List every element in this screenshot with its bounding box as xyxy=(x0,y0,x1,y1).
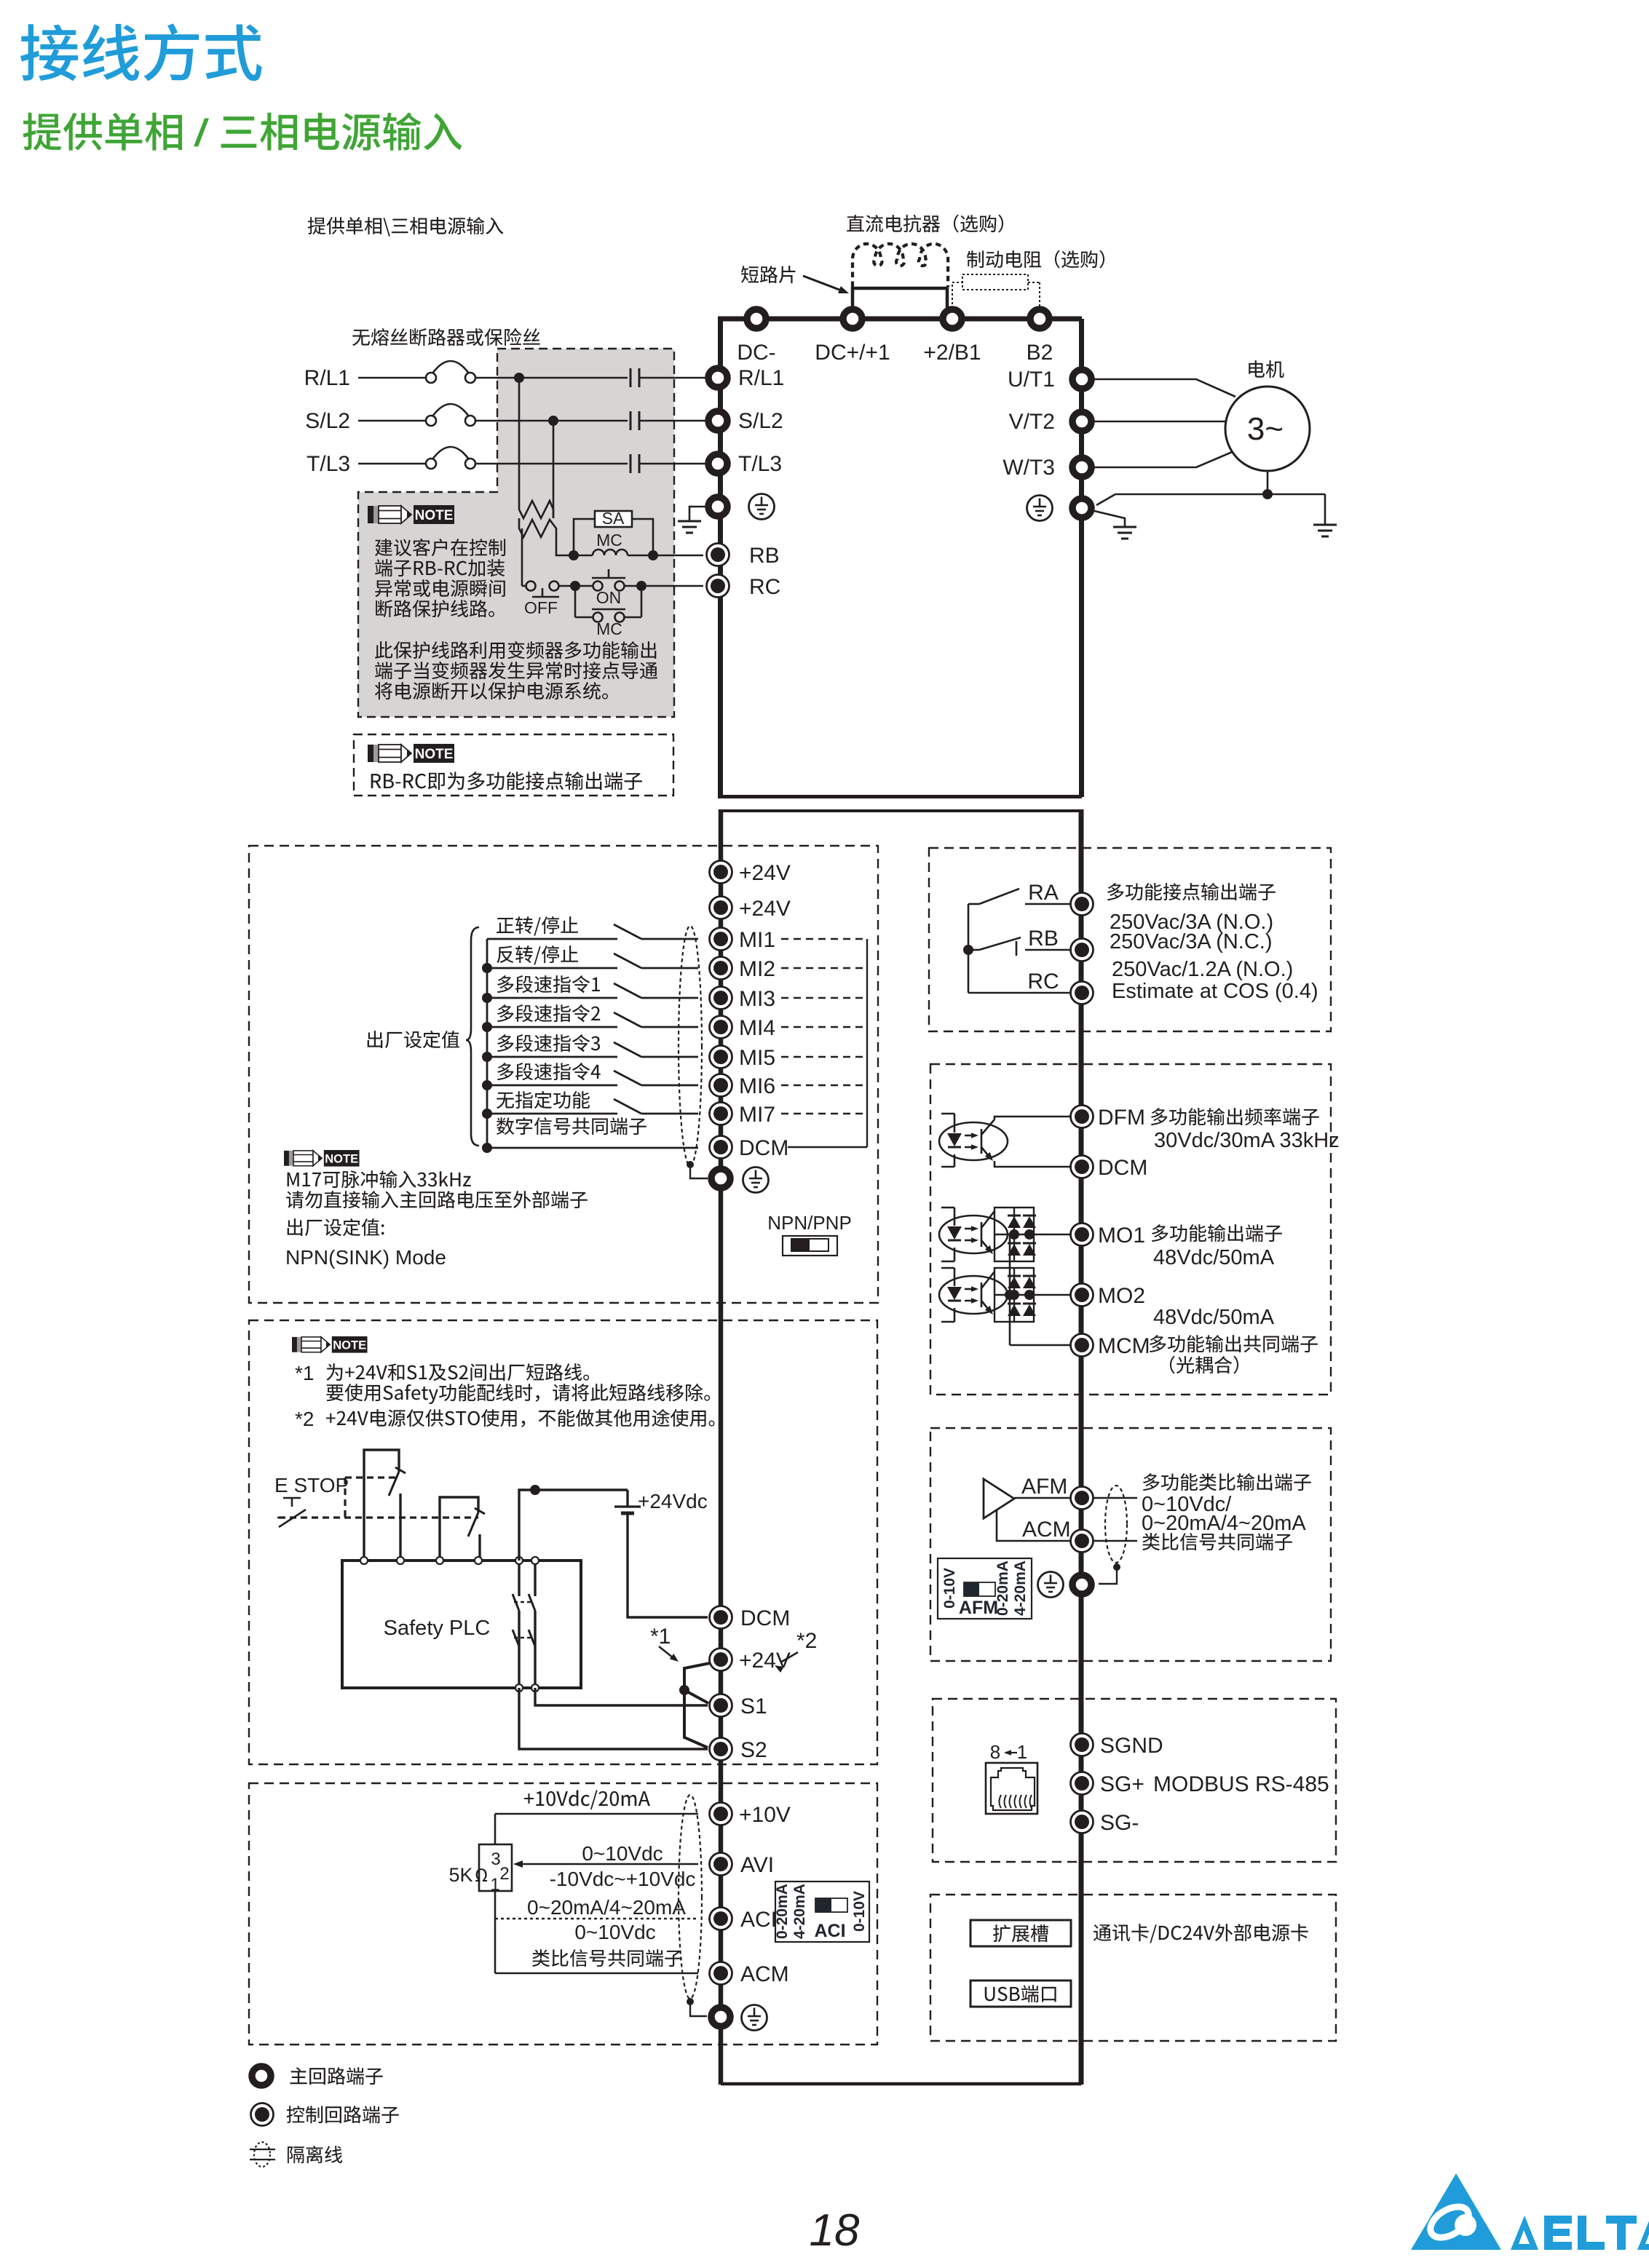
svg-text:NOTE: NOTE xyxy=(415,508,454,523)
svg-text:0-10V: 0-10V xyxy=(851,1891,868,1932)
ground terminal (digital input shield) xyxy=(711,1169,730,1188)
svg-text:*1: *1 xyxy=(295,1362,314,1384)
inverter main power box xyxy=(718,317,1082,322)
svg-text:+24V: +24V xyxy=(739,897,791,921)
svg-text:ACM: ACM xyxy=(1022,1518,1071,1542)
MCM text xyxy=(1150,1335,1318,1352)
svg-text:SG-: SG- xyxy=(1100,1811,1139,1835)
junction bus-MI2 xyxy=(482,963,492,973)
junction R/L1 branch xyxy=(514,373,524,383)
svg-text:MI6: MI6 xyxy=(739,1074,775,1098)
wire MO2 to terminal xyxy=(1034,1294,1070,1296)
svg-text:0-10V: 0-10V xyxy=(941,1568,958,1609)
svg-text:V/T2: V/T2 xyxy=(1009,410,1055,434)
terminal ACM (out) xyxy=(1071,1530,1094,1553)
junction relay RB xyxy=(963,945,973,955)
svg-text:AVI: AVI xyxy=(740,1853,774,1877)
dashed box analog output xyxy=(930,1428,1331,1661)
wire DCM common (数字信号共同端子) xyxy=(497,1117,646,1135)
junction ON-MC xyxy=(636,581,646,591)
svg-text:+24V: +24V xyxy=(739,1649,791,1673)
svg-text:DFM: DFM xyxy=(1098,1106,1145,1130)
svg-text:48Vdc/50mA: 48Vdc/50mA xyxy=(1153,1306,1275,1329)
junction +24Vdc xyxy=(530,1485,540,1495)
ground terminal (output side) xyxy=(1072,499,1091,518)
svg-text:DCM: DCM xyxy=(740,1606,790,1630)
svg-text:DCM: DCM xyxy=(1098,1156,1147,1180)
PLC internal STO wires xyxy=(518,1564,520,1596)
factory jumper +24V-S1-S2 xyxy=(684,1663,710,1690)
svg-text:MO2: MO2 xyxy=(1098,1284,1145,1308)
note box RB-RC即为多功能接点输出端子 xyxy=(354,734,673,796)
ground terminal (analog shield) xyxy=(711,2007,730,2026)
svg-text:T/L3: T/L3 xyxy=(307,452,350,476)
svg-text:B2: B2 xyxy=(1027,341,1053,365)
svg-text:R/L1: R/L1 xyxy=(304,366,350,390)
switch + wire MI4 (多段速指令2) xyxy=(497,1004,600,1022)
dashed link MI6 to NPN bus xyxy=(781,1085,867,1086)
svg-text:ON: ON xyxy=(596,588,622,607)
svg-text:RC: RC xyxy=(749,575,780,599)
surge absorber SA xyxy=(595,511,632,527)
svg-text:SG+: SG+ xyxy=(1100,1772,1144,1796)
svg-text:MC: MC xyxy=(596,619,622,638)
optocoupler DFM xyxy=(941,1113,954,1115)
terminal MCM xyxy=(1071,1334,1094,1357)
note text 建议客户在控制端子RB-RC加装... xyxy=(375,539,505,556)
svg-text:S2: S2 xyxy=(740,1738,767,1762)
wire PLC to S1 xyxy=(535,1688,708,1705)
PLC top port x=657 xyxy=(475,1557,482,1564)
svg-text:0~10Vdc: 0~10Vdc xyxy=(574,1921,655,1943)
svg-text:MI1: MI1 xyxy=(739,928,775,952)
svg-text:AFM: AFM xyxy=(1021,1475,1067,1499)
svg-text:5K: 5K xyxy=(448,1864,472,1886)
terminal V/T2 xyxy=(1072,412,1091,431)
wire ON junction to RC xyxy=(641,585,703,587)
terminal S2 xyxy=(710,1738,732,1761)
svg-text:MC: MC xyxy=(596,531,622,550)
page title 接线方式 xyxy=(20,23,262,81)
terminal B2 xyxy=(1030,309,1049,328)
analog output text xyxy=(1143,1473,1311,1491)
terminal DCM (STO) xyxy=(710,1606,732,1629)
dashed box digital input section xyxy=(249,846,878,1303)
svg-text:RA: RA xyxy=(1028,881,1059,905)
dashed link MI5 to NPN bus xyxy=(781,1056,867,1058)
motor ground wire xyxy=(1267,471,1269,494)
ACI switch box xyxy=(775,1882,869,1942)
wire PLC to S2 xyxy=(519,1688,708,1749)
junction bus-MI5 xyxy=(482,1052,492,1062)
ACM wire xyxy=(532,1949,682,1967)
junction bus-MI4 xyxy=(482,1022,492,1032)
svg-text:2: 2 xyxy=(499,1864,509,1884)
switch + wire MI1 (正转/停止) xyxy=(497,916,578,936)
terminal +2/B1 xyxy=(943,309,962,328)
RJ45 pins xyxy=(1000,1795,1002,1808)
junction bus-MI6 xyxy=(482,1080,492,1090)
terminal DC+/+1 xyxy=(843,309,862,328)
dashed link MI7 to NPN bus xyxy=(781,1113,867,1114)
dashed link MI4 to NPN bus xyxy=(781,1026,867,1028)
shield ellipse (analog out) xyxy=(1094,1497,1137,1499)
switch + wire MI5 (多段速指令3) xyxy=(497,1034,600,1052)
junction motor ground xyxy=(1262,489,1273,499)
note M17 xyxy=(284,1150,360,1167)
junction MC-right xyxy=(648,550,658,560)
shield ellipse (analog inputs) xyxy=(679,1795,702,1999)
svg-text:0-20mA: 0-20mA xyxy=(994,1561,1011,1616)
svg-text:W/T3: W/T3 xyxy=(1003,456,1055,480)
svg-text:MCM: MCM xyxy=(1098,1334,1150,1358)
junction MC-left xyxy=(569,550,579,560)
expansion slot 扩展槽 xyxy=(970,1920,1071,1946)
optocoupler MO1 xyxy=(941,1207,954,1209)
NPN/PNP select bus xyxy=(866,939,868,1147)
svg-text:0~10Vdc: 0~10Vdc xyxy=(582,1842,663,1865)
terminal +24V (STO) xyxy=(710,1649,732,1671)
terminal DC- xyxy=(747,309,766,328)
shield ellipse (digital inputs) xyxy=(679,926,702,1166)
svg-text:*2: *2 xyxy=(295,1408,314,1430)
svg-text:NOTE: NOTE xyxy=(333,1338,366,1352)
terminal +24V (1) xyxy=(710,861,732,884)
ground wire input side xyxy=(689,507,705,521)
junction bus-MI7 xyxy=(482,1109,492,1119)
svg-text:-10Vdc~+10Vdc: -10Vdc~+10Vdc xyxy=(550,1868,696,1890)
svg-text:0-20mA: 0-20mA xyxy=(774,1884,791,1939)
potentiometer 5K xyxy=(494,1814,497,1844)
svg-text:SGND: SGND xyxy=(1100,1734,1163,1758)
dashed box analog input section xyxy=(249,1783,877,2045)
wire MO1 to terminal xyxy=(1034,1234,1070,1236)
dashed box RS-485 xyxy=(933,1699,1336,1862)
Delta logo xyxy=(1411,2173,1501,2250)
svg-text:NOTE: NOTE xyxy=(415,747,454,762)
ground terminal (input side) xyxy=(708,497,727,516)
+10V supply wire xyxy=(524,1791,650,1809)
diode bridge MO2 xyxy=(994,1268,1034,1322)
contact MC (parallel) xyxy=(574,586,577,617)
svg-text:RB: RB xyxy=(1028,927,1059,951)
PLC top port x=735 xyxy=(531,1557,539,1564)
dashed box relay output xyxy=(929,848,1331,1031)
DFM text xyxy=(1151,1108,1319,1125)
junction OFF-ON xyxy=(570,581,580,591)
PLC top port x=500 xyxy=(360,1557,368,1564)
PLC top port x=604 xyxy=(436,1557,443,1564)
ground symbol (motor) xyxy=(1313,524,1337,526)
terminal SGND xyxy=(1071,1734,1094,1756)
terminal MO1 xyxy=(1071,1224,1094,1246)
wire MC junction to RB xyxy=(653,555,703,557)
label 无熔丝断路器或保险丝 xyxy=(352,328,540,346)
braking resistor (制动电阻 选购) dotted xyxy=(962,274,1028,290)
svg-text:0~20mA/4~20mA: 0~20mA/4~20mA xyxy=(1142,1512,1306,1535)
svg-text:+24V: +24V xyxy=(739,861,791,885)
svg-text:NPN(SINK) Mode: NPN(SINK) Mode xyxy=(285,1246,446,1269)
ground terminal (analog out shield) xyxy=(1072,1575,1091,1594)
relay common vertical xyxy=(968,904,970,993)
svg-text:MI2: MI2 xyxy=(739,957,775,981)
svg-text:MO1: MO1 xyxy=(1098,1224,1145,1248)
svg-text:+24Vdc: +24Vdc xyxy=(638,1490,708,1512)
junction jumper xyxy=(679,1685,689,1695)
svg-text:30Vdc/30mA 33kHz: 30Vdc/30mA 33kHz xyxy=(1154,1129,1340,1152)
NOTE icon STO xyxy=(292,1336,368,1353)
switch + wire MI3 (多段速指令1) xyxy=(497,975,600,993)
MCM common wire xyxy=(1009,1234,1011,1345)
legend main circuit terminal xyxy=(252,2066,271,2085)
pushbutton OFF (NC) xyxy=(522,585,526,587)
switch + wire MI2 (反转/停止) xyxy=(497,945,578,965)
diagram caption 提供单相\三相电源输入 xyxy=(308,217,504,237)
PLC bottom port x=713 xyxy=(515,1684,523,1692)
dashed link MI3 to NPN bus xyxy=(781,997,867,999)
short-circuit jumper 短路片 xyxy=(853,287,947,290)
DC reactor L1 (直流电抗器 选购) dashed coil xyxy=(853,244,948,287)
terminal S1 xyxy=(710,1694,732,1717)
safety switch 2 xyxy=(440,1497,478,1561)
optocoupler MO2 xyxy=(941,1267,954,1269)
svg-text:S1: S1 xyxy=(740,1694,767,1718)
mechanical link dashed xyxy=(279,1516,478,1518)
legend control circuit terminal xyxy=(251,2104,274,2126)
safety switch 1 xyxy=(364,1450,399,1561)
dashed box multifunction outputs xyxy=(930,1064,1331,1395)
svg-text:S/L2: S/L2 xyxy=(305,409,350,433)
出厂设定值: NPN(SINK) Mode xyxy=(288,1218,384,1236)
terminal U/T1 xyxy=(1072,370,1091,389)
svg-text:Safety PLC: Safety PLC xyxy=(384,1617,491,1640)
terminal +24V (2) xyxy=(710,897,732,919)
terminal AFM xyxy=(1071,1487,1094,1510)
svg-text:MI3: MI3 xyxy=(739,987,775,1011)
svg-text:4-20mA: 4-20mA xyxy=(791,1884,808,1939)
relay ratings text xyxy=(1107,883,1276,900)
svg-text:ACM: ACM xyxy=(740,1962,789,1986)
svg-text:R/L1: R/L1 xyxy=(738,366,784,390)
ground wire output side xyxy=(1094,511,1125,527)
amplifier AFM xyxy=(984,1479,1014,1518)
svg-text:4-20mA: 4-20mA xyxy=(1012,1561,1029,1616)
legend shielded wire xyxy=(250,2149,275,2150)
svg-text:OFF: OFF xyxy=(524,598,558,617)
svg-text:ACI: ACI xyxy=(814,1921,845,1941)
svg-text:SA: SA xyxy=(602,509,625,528)
wire DCM to NPN bus xyxy=(788,1146,867,1148)
svg-text:Estimate at COS (0.4): Estimate at COS (0.4) xyxy=(1112,980,1318,1003)
varistor/resistor chain from R and S phases xyxy=(518,378,521,509)
svg-text:0~20mA/4~20mA: 0~20mA/4~20mA xyxy=(527,1896,686,1919)
svg-text:NPN/PNP: NPN/PNP xyxy=(767,1212,852,1234)
dashed link MI1 to NPN bus xyxy=(781,938,867,940)
svg-text:T/L3: T/L3 xyxy=(738,452,782,476)
svg-text:18: 18 xyxy=(810,2205,860,2256)
svg-text:MI4: MI4 xyxy=(739,1016,775,1040)
svg-text:S/L2: S/L2 xyxy=(738,409,783,433)
MO1 text xyxy=(1152,1224,1282,1242)
AFM switch box xyxy=(938,1558,1032,1619)
svg-text:U/T1: U/T1 xyxy=(1008,368,1055,392)
junction S/L2 branch xyxy=(548,416,558,426)
RJ45 jack xyxy=(986,1763,1037,1814)
terminal SG+ xyxy=(1071,1772,1094,1795)
NOTE icon (gray box) xyxy=(368,505,454,524)
junction bus-MI3 xyxy=(482,993,492,1003)
svg-text:DC+/+1: DC+/+1 xyxy=(815,341,890,365)
svg-text:/: / xyxy=(194,112,210,154)
svg-text:ACI: ACI xyxy=(740,1908,777,1932)
svg-text:NOTE: NOTE xyxy=(325,1151,358,1165)
terminal MO2 xyxy=(1071,1284,1094,1307)
svg-text:RB: RB xyxy=(749,544,780,568)
PLC bottom port x=735 xyxy=(531,1684,539,1692)
gray note area (protection circuit) xyxy=(358,349,674,717)
svg-text:48Vdc/50mA: 48Vdc/50mA xyxy=(1153,1246,1275,1269)
Safety PLC box xyxy=(342,1561,581,1688)
pushbutton ON (NO) xyxy=(575,585,593,587)
svg-text:MODBUS RS-485: MODBUS RS-485 xyxy=(1153,1772,1329,1796)
svg-text:DC-: DC- xyxy=(737,341,775,365)
svg-text:E STOP: E STOP xyxy=(274,1474,349,1496)
motor wires U/V/W xyxy=(1094,379,1235,397)
terminal DCM (out) xyxy=(1071,1156,1094,1178)
svg-text:8: 8 xyxy=(990,1741,1000,1763)
svg-text:MI5: MI5 xyxy=(739,1046,775,1070)
junction MCM-MO2 xyxy=(1005,1290,1015,1300)
switch + wire MI7 (无指定功能) xyxy=(497,1091,590,1109)
svg-text:RC: RC xyxy=(1027,970,1059,994)
terminal RB xyxy=(707,544,729,566)
switch + wire MI6 (多段速指令4) xyxy=(497,1063,601,1080)
expansion text 通讯卡/DC24V外部电源卡 xyxy=(1094,1924,1308,1943)
dashed box STO/safety section xyxy=(249,1320,877,1764)
svg-text:*2: *2 xyxy=(796,1629,817,1653)
PLC top port x=713 xyxy=(515,1557,523,1564)
svg-text:DCM: DCM xyxy=(739,1136,788,1160)
+24Vdc source xyxy=(519,1490,628,1561)
USB port box USB端口 xyxy=(970,1980,1071,2007)
factory default brace 出厂设定值 xyxy=(368,1031,459,1048)
diode bridge MO1 xyxy=(994,1208,1034,1261)
svg-text:AFM: AFM xyxy=(959,1598,998,1618)
dashed box expansion xyxy=(930,1895,1336,2041)
svg-text:3~: 3~ xyxy=(1247,411,1284,447)
terminal DFM xyxy=(1071,1106,1094,1128)
svg-text:*1: *1 xyxy=(650,1625,671,1649)
note text 此保护线路利用变频器多功能输出... xyxy=(375,641,656,659)
svg-text:+2/B1: +2/B1 xyxy=(923,341,981,365)
control board outline xyxy=(721,809,1081,812)
motor M1 3-phase xyxy=(1225,386,1310,471)
svg-text:250Vac/3A (N.C.): 250Vac/3A (N.C.) xyxy=(1110,930,1273,953)
svg-text:+10V: +10V xyxy=(739,1803,791,1827)
terminal RC xyxy=(707,575,729,598)
svg-text:250Vac/1.2A (N.O.): 250Vac/1.2A (N.O.) xyxy=(1112,958,1293,981)
svg-text:MI7: MI7 xyxy=(739,1103,775,1127)
subtitle 提供单相/三相电源输入 xyxy=(23,113,182,151)
junction bus-DCM xyxy=(482,1143,492,1153)
svg-text:1: 1 xyxy=(1017,1741,1027,1763)
terminal W/T3 xyxy=(1072,458,1091,477)
dashed link MI2 to NPN bus xyxy=(781,967,867,969)
terminal SG- xyxy=(1071,1811,1094,1833)
PLC top port x=550 xyxy=(397,1557,404,1564)
digital input common bus (left vertical) xyxy=(486,939,489,1148)
